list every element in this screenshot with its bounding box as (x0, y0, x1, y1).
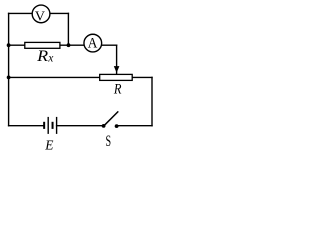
wire: bottom wire battery to switch (57, 125, 104, 127)
wire: Rx branch horizontal (9, 44, 117, 46)
wire: right vertical of voltmeter loop (67, 13, 69, 45)
svg-text:A: A (88, 36, 98, 52)
switch contact dot left (102, 124, 106, 128)
battery long thin plate 2 (56, 117, 58, 134)
resistor Rx box (25, 42, 60, 48)
wire: top wire of voltmeter loop (9, 12, 69, 14)
junction dot left of Rx (7, 43, 11, 47)
switch contact dot right (115, 124, 119, 128)
svg-text:V: V (35, 10, 45, 25)
rheostat R box (100, 74, 133, 80)
wire: vertical to rheostat slider (116, 45, 118, 74)
svg-text:S: S (106, 133, 112, 150)
ammeter U-A circle (84, 34, 102, 52)
junction dot left rheostat branch (7, 76, 11, 80)
svg-text:x: x (47, 53, 54, 65)
battery E cells (44, 117, 56, 134)
svg-text:E: E (44, 137, 54, 152)
wire: rheostat right wire (132, 76, 152, 78)
junction dot right of Rx (67, 43, 71, 47)
wire: left vertical main wire (8, 13, 10, 125)
rheostat slider arrow (114, 66, 120, 73)
wire: right vertical (151, 77, 153, 125)
battery short thick plate 2 (52, 122, 54, 129)
wire: bottom wire left of battery (9, 125, 45, 127)
wire: bottom wire right of switch (117, 125, 152, 127)
wire: rheostat bottom-left wire (9, 76, 100, 78)
svg-text:R: R (36, 48, 48, 65)
switch S lever (105, 111, 119, 125)
svg-text:R: R (113, 82, 121, 98)
voltmeter U-V circle (32, 5, 50, 23)
battery long thin plate 1 (47, 117, 49, 134)
battery short thick plate 1 (43, 122, 45, 129)
